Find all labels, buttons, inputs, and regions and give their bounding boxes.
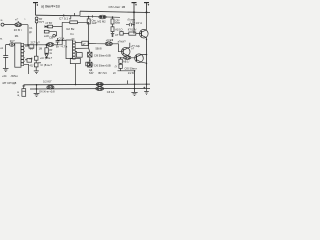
- svg-text:Об Ж-м +0,8: Об Ж-м +0,8: [39, 90, 55, 94]
- node x134 y24.7: [133, 24, 135, 26]
- IC1 pins right (pad squares): [21, 43, 25, 65]
- IC2 pins right (pad squares): [73, 41, 76, 59]
- node L2 x134.5: [134, 88, 136, 90]
- transistor Q4: [121, 47, 130, 56]
- wire vertical x28: [27, 25, 29, 45]
- stub x127.6: [127, 80, 129, 84]
- svg-text:.МГ СРЧД8: .МГ СРЧД8: [2, 81, 17, 85]
- svg-text:hv: hv: [71, 32, 75, 36]
- transistor Q3: [140, 29, 149, 38]
- bottom wire L2: [30, 87, 150, 90]
- svg-text:ВУ /SЧ: ВУ /SЧ: [99, 72, 107, 75]
- svg-text:+04: +04: [2, 74, 7, 78]
- box W small: [76, 53, 82, 58]
- wire pin stubs: [75, 48, 88, 51]
- oval cap bottom mid upper: [96, 82, 103, 86]
- chain x36.5 boxes: [34, 45, 39, 74]
- wire vertical x134: [133, 12, 135, 33]
- base chain to Q3: [120, 32, 142, 36]
- svg-text:С/6 50мк+16В: С/6 50мк+16В: [94, 65, 111, 68]
- svg-text:С/1А: С/1А: [59, 36, 65, 40]
- capacitor C (oval) on mid line: [99, 15, 106, 19]
- component row 2: [44, 30, 56, 36]
- svg-text:К?/1 А/: К?/1 А/: [128, 27, 137, 31]
- oval cap Q5 base: [124, 56, 131, 60]
- terminal T1 (+U input): [33, 3, 38, 16]
- svg-text:1мР: 1мР: [92, 21, 97, 25]
- circle small: [53, 35, 56, 38]
- wire pin5 box: [25, 59, 27, 61]
- svg-text:5ЗУ: 5ЗУ: [89, 72, 94, 75]
- node at x112.5: [112, 16, 114, 18]
- wire below box W2: [75, 64, 77, 85]
- node L1 x134.5: [134, 83, 136, 85]
- feedback rect right wire: [89, 22, 90, 67]
- node above CX2: [89, 60, 90, 61]
- capacitor C8 oval: [47, 43, 54, 47]
- oval cap upper: [105, 42, 112, 46]
- svg-text:2С? /у?: 2С? /у?: [31, 40, 41, 44]
- wire vertical x146 lower: [146, 38, 148, 89]
- wire y44.8 mid-left: [6, 44, 63, 46]
- IC1 box: [15, 43, 21, 67]
- box E: [82, 41, 88, 45]
- node x28 y44.8: [27, 44, 29, 46]
- wire vertical x36: [36, 23, 38, 45]
- node L1 x146.5: [146, 83, 148, 85]
- box at pin5: [27, 58, 32, 62]
- wire vertical x134.5 lower: [134, 71, 136, 92]
- tiny box right: [86, 62, 90, 66]
- wire pin to box E: [75, 41, 82, 43]
- potentiometer R1 oval: [15, 21, 22, 27]
- capacitor vertical C9: [56, 38, 60, 45]
- capacitor CX1 box on x88 vertical: [88, 52, 92, 57]
- resistor R (vertical) below node: [88, 17, 90, 19]
- svg-text:1М: 1М: [39, 48, 43, 51]
- node x46.6 y44.8 bold: [46, 44, 48, 46]
- svg-text:М2 М2: М2 М2: [98, 20, 107, 24]
- cap plus ground right: [143, 87, 149, 95]
- transistor Q5: [135, 54, 144, 63]
- feedback rect top wire: [62, 21, 88, 23]
- svg-text:С# 1А: С# 1А: [107, 90, 115, 94]
- ground branch x36.5 bottom: [34, 84, 40, 96]
- svg-text:и·: и·: [1, 18, 4, 22]
- node x146 y39.5: [146, 39, 147, 40]
- svg-text:2О В т: 2О В т: [14, 28, 23, 32]
- node bus x134: [133, 11, 135, 13]
- svg-text:0,2 ЮГ: 0,2 ЮГ: [43, 80, 52, 84]
- wire supply left segment: [36, 14, 81, 17]
- Q4 emitter wire: [128, 56, 131, 57]
- svg-text:С7 0,1 м: С7 0,1 м: [59, 16, 71, 20]
- svg-text:5В 8/: 5В 8/: [96, 47, 103, 51]
- node y70.8: [134, 70, 136, 72]
- svg-text:С/ (В м+?: С/ (В м+?: [41, 64, 53, 67]
- capacitor C2 leads: [64, 13, 75, 19]
- svg-text:ВУ: ВУ: [39, 19, 43, 21]
- capacitor to ground left: [3, 45, 8, 69]
- svg-text:СЮ 50мк+: СЮ 50мк+: [125, 67, 138, 70]
- column x120.6 boxes: [119, 58, 122, 71]
- feedback rect left wire: [61, 22, 63, 45]
- capacitor CX2 box on x88 vertical: [88, 62, 92, 67]
- node x36 y44.8: [36, 44, 38, 46]
- Q5 emitter wire: [141, 62, 146, 63]
- svg-text:вО: вО: [29, 58, 32, 61]
- box W2 wide: [70, 58, 80, 63]
- terminal circle x36 upper: [35, 17, 38, 20]
- resistor R2 top: [70, 21, 78, 24]
- node x120.6: [120, 57, 121, 58]
- capacitor branch y24.7: [126, 24, 134, 26]
- IC2 box: [66, 40, 73, 59]
- oval C at IC1 input: [10, 43, 15, 47]
- svg-text:/г?: /г?: [131, 48, 135, 51]
- wire input: [4, 24, 28, 26]
- svg-text:а) 8мкФ×1В: а) 8мкФ×1В: [41, 4, 61, 8]
- node q5 joins: [146, 54, 147, 55]
- wire supply bus right: [80, 11, 150, 12]
- svg-text:щ: щ: [17, 94, 19, 97]
- wire pin1 to box: [25, 45, 29, 47]
- ground G2: [131, 92, 137, 95]
- wire mid line right: [80, 16, 120, 17]
- svg-text:2/г: 2/г: [113, 72, 116, 75]
- node at x88: [88, 16, 90, 18]
- resistor chain x46.6: [45, 45, 48, 58]
- svg-text:м.: м.: [0, 38, 3, 41]
- node x75.5 L1: [75, 84, 77, 86]
- svg-text:4С/: 4С/: [29, 64, 33, 67]
- diode D row: [45, 25, 63, 28]
- svg-text:КТ: КТ: [115, 34, 119, 37]
- svg-text:ПУТ: ПУТ: [39, 22, 44, 24]
- box at pin1: [29, 45, 34, 49]
- svg-text:/63Чи: /63Чи: [11, 74, 19, 78]
- terminal circle x36 lower: [35, 20, 38, 23]
- oval cap bottom left: [47, 85, 54, 89]
- terminal T3: [144, 3, 149, 13]
- svg-text:Об Uпит 1В: Об Uпит 1В: [109, 5, 126, 9]
- wire y43.8 upper right: [88, 43, 123, 51]
- Q4 collector wire: [128, 43, 130, 48]
- svg-text:+С/вФ: +С/вФ: [106, 39, 113, 42]
- svg-text:1/У А: 1/У А: [136, 21, 143, 25]
- Q5 collector wire: [141, 53, 146, 55]
- bottom wire L1: [24, 83, 150, 86]
- svg-text:а?/вУ?: а?/вУ?: [118, 41, 127, 44]
- svg-text:1/2 В: 1/2 В: [128, 72, 134, 75]
- wire jog up: [79, 11, 81, 16]
- svg-text:2С?: 2С?: [10, 40, 15, 43]
- wire y70.8: [118, 70, 135, 72]
- input jack circle: [1, 23, 4, 26]
- svg-text:А1/1О: А1/1О: [115, 29, 122, 32]
- svg-text:М1: М1: [15, 34, 19, 38]
- svg-text:+Г: +Г: [15, 17, 19, 21]
- oval cap bottom mid lower: [96, 87, 104, 91]
- svg-text:+С/ (В ж-?: +С/ (В ж-?: [40, 57, 53, 60]
- svg-text:/У: /У: [115, 65, 118, 68]
- wire pin6 down: [25, 64, 29, 74]
- node bus x146: [146, 11, 148, 13]
- svg-text:К2 Вк: К2 Вк: [67, 27, 75, 31]
- svg-text:1,2В: 1,2В: [130, 20, 136, 24]
- resistor chain x112.5: [111, 17, 114, 37]
- svg-text:57П: 57П: [115, 22, 120, 25]
- svg-text:лУ ВУ: лУ ВУ: [45, 22, 52, 25]
- node y62.8 tick: [38, 62, 41, 64]
- svg-text:АВ 1/: АВ 1/: [123, 61, 130, 64]
- left vertical to cap: [22, 85, 26, 96]
- ground G1: [3, 69, 9, 72]
- IC2 input arrow: [58, 39, 66, 41]
- wire to Q5 base: [117, 57, 136, 59]
- wire vertical x146 upper: [146, 12, 148, 29]
- terminal T2: [132, 3, 137, 13]
- svg-text:СВ: СВ: [49, 35, 53, 39]
- svg-text:С/8 50мк+16В: С/8 50мк+16В: [94, 54, 111, 57]
